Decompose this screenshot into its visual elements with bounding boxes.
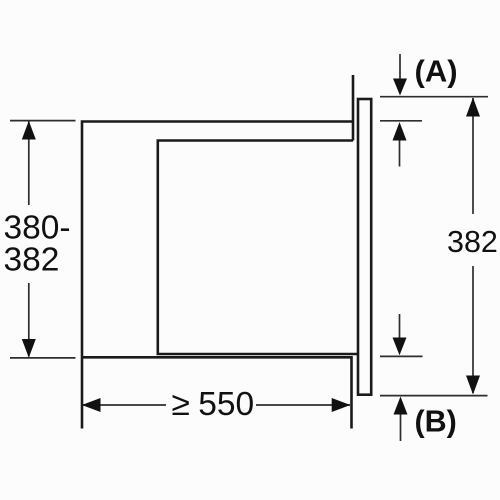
- arrow down B: [393, 314, 407, 355]
- dimension line 382: [472, 98, 474, 393]
- arrow left >=550: [82, 398, 101, 412]
- svg-text:382: 382: [4, 241, 60, 278]
- reference line B bottom: [380, 395, 488, 397]
- arrow up B: [394, 397, 408, 442]
- svg-text:≥ 550: ≥ 550: [172, 386, 255, 423]
- reference line A bottom: [380, 120, 422, 122]
- front panel: [358, 99, 371, 395]
- label 382: [447, 225, 498, 259]
- arrow down 380-382: [22, 339, 36, 358]
- arrow down A: [393, 54, 407, 96]
- arrow up 382: [466, 98, 480, 117]
- label 380-382: [4, 209, 71, 278]
- reference line A top: [380, 96, 488, 98]
- extension line bottom-left: [10, 357, 76, 359]
- label (B): [415, 404, 457, 438]
- appliance body: [158, 141, 358, 355]
- dimension line 380-382: [28, 122, 30, 357]
- svg-text:382: 382: [447, 225, 498, 259]
- cabinet niche outline: [82, 75, 353, 429]
- svg-text:(A): (A): [415, 53, 458, 88]
- arrow up 380-382: [22, 121, 36, 140]
- arrow up A: [393, 122, 407, 167]
- label >=550: [172, 386, 255, 423]
- arrow right >=550: [332, 398, 351, 412]
- svg-text:(B): (B): [415, 404, 457, 438]
- extension line top-left: [10, 120, 76, 122]
- arrow down 382: [466, 376, 480, 395]
- label (A): [415, 53, 458, 88]
- dimension line >=550: [83, 404, 351, 406]
- reference line B top: [380, 355, 423, 357]
